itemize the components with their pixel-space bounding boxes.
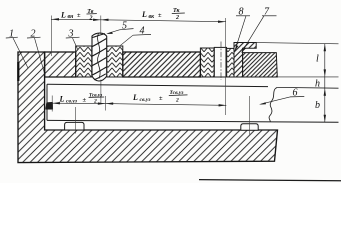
centerline of lower-right nub bbox=[249, 96, 251, 135]
washer block right of stud 5 (part 4) bbox=[107, 46, 123, 77]
label 1 bbox=[6, 29, 28, 69]
svg-text:±: ± bbox=[159, 95, 163, 102]
extension line right of top dim 2 bbox=[225, 18, 227, 115]
svg-text:2: 2 bbox=[93, 99, 97, 105]
svg-text:св.уз: св.уз bbox=[66, 98, 78, 104]
label 4 bbox=[121, 26, 152, 46]
bar part 6 top edge (right of break) bbox=[277, 86, 338, 89]
lower-right plug weld nub bbox=[241, 124, 258, 131]
svg-text:b: b bbox=[315, 100, 320, 111]
svg-text:св.уз: св.уз bbox=[140, 97, 152, 103]
top plate part 2 segment A bbox=[45, 52, 76, 77]
svg-text:вн: вн bbox=[68, 14, 75, 20]
svg-text:±: ± bbox=[83, 97, 87, 104]
label 5 bbox=[106, 21, 133, 34]
svg-text:2: 2 bbox=[89, 15, 93, 21]
centerline of right-middle stud bbox=[220, 42, 222, 81]
svg-text:L: L bbox=[141, 10, 147, 19]
extension tick for middle dims bbox=[105, 96, 107, 111]
bar part 6 left end bbox=[46, 84, 48, 120]
washer block left of stud 5 (part 3) bbox=[76, 46, 92, 77]
svg-text:L: L bbox=[60, 10, 66, 19]
svg-text:L: L bbox=[59, 95, 65, 104]
plain stud in right-middle joint bbox=[214, 47, 227, 77]
svg-text:±: ± bbox=[77, 12, 81, 19]
top dimension line 2 bbox=[101, 19, 226, 23]
label 8 bbox=[235, 7, 250, 51]
label 7 bbox=[242, 7, 277, 53]
right side extension line top (boss top) bbox=[256, 43, 338, 44]
lower-left plug weld nub bbox=[65, 122, 84, 130]
top plate part 2 segment B bbox=[123, 52, 201, 77]
extension line left (top dim) bbox=[50, 16, 52, 57]
bar part 6 bottom edge bbox=[47, 120, 339, 122]
dim text Lсв.уз±Тсв.уз/2 (right) bbox=[132, 90, 188, 103]
dim text Lсв.уз±Тсв.уз/2 (left) bbox=[59, 92, 105, 104]
dim text Lвн±Тв/2 bbox=[60, 9, 97, 21]
middle dimension line 1 bbox=[52, 102, 105, 105]
extension line at weld bbox=[51, 96, 53, 112]
right-middle joint: right chevron block bbox=[227, 48, 234, 77]
plate bottom edge line extended right bbox=[45, 76, 339, 78]
top dimension line 1 bbox=[51, 18, 101, 21]
svg-text:h: h bbox=[315, 79, 320, 90]
svg-text:2: 2 bbox=[175, 15, 179, 21]
label 6 bbox=[259, 88, 304, 105]
dim text Lвк±Тк/2 bbox=[141, 8, 185, 21]
middle dimension line 2 bbox=[106, 102, 227, 106]
svg-text:5: 5 bbox=[122, 21, 127, 32]
svg-text:±: ± bbox=[158, 12, 162, 19]
clamp strip part 8 bbox=[234, 43, 256, 78]
bottom right stray line bbox=[199, 180, 341, 181]
body frame part 1 (L-shaped hatched base) bbox=[18, 52, 278, 163]
svg-text:L: L bbox=[132, 93, 138, 102]
centerline of lower-left nub bbox=[75, 107, 77, 134]
break wave on bar 6 bbox=[269, 87, 277, 122]
label 2 bbox=[27, 29, 45, 76]
threaded stud part 5 bbox=[92, 33, 107, 81]
svg-text:l: l bbox=[316, 54, 319, 65]
svg-text:2: 2 bbox=[175, 97, 179, 103]
end block part 7 bbox=[243, 53, 278, 77]
weld blob at left end of bar 6 bbox=[46, 102, 53, 109]
right vertical dimension line l/h/b bbox=[324, 44, 326, 123]
centerline of stud 5 / extension line bbox=[100, 16, 102, 104]
right-middle joint: left chevron block bbox=[200, 48, 214, 77]
bar part 6 top edge (left of break) bbox=[47, 84, 268, 86]
label 3 bbox=[66, 29, 80, 51]
